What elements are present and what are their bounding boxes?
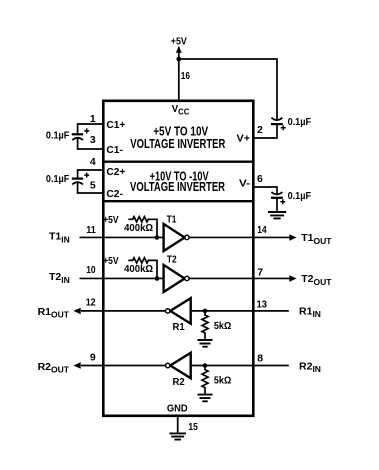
svg-text:VOLTAGE INVERTER: VOLTAGE INVERTER	[130, 180, 225, 194]
svg-text:R1IN: R1IN	[299, 305, 321, 319]
svg-text:R1: R1	[173, 321, 185, 333]
svg-text:T1OUT: T1OUT	[301, 232, 332, 246]
svg-text:C1-: C1-	[106, 144, 123, 156]
svg-text:14: 14	[257, 224, 267, 236]
svg-text:0.1µF: 0.1µF	[288, 191, 311, 202]
svg-text:R2IN: R2IN	[299, 360, 321, 374]
svg-text:15: 15	[188, 421, 198, 433]
svg-text:6: 6	[257, 173, 263, 185]
svg-text:0.1µF: 0.1µF	[288, 117, 311, 128]
svg-text:0.1µF: 0.1µF	[46, 130, 69, 141]
svg-text:GND: GND	[167, 403, 188, 415]
svg-text:C2-: C2-	[106, 188, 123, 200]
svg-text:T2OUT: T2OUT	[301, 273, 332, 287]
svg-text:T2: T2	[167, 253, 177, 265]
svg-text:T1: T1	[167, 213, 177, 225]
svg-text:1: 1	[90, 113, 96, 125]
svg-text:T1IN: T1IN	[49, 231, 70, 245]
svg-text:V-: V-	[239, 178, 251, 190]
svg-text:16: 16	[181, 70, 190, 82]
svg-text:2: 2	[257, 124, 263, 136]
svg-text:0.1µF: 0.1µF	[46, 174, 69, 185]
svg-text:5kΩ: 5kΩ	[214, 375, 231, 386]
svg-text:VCC: VCC	[172, 103, 190, 117]
svg-text:+5V: +5V	[103, 255, 118, 267]
svg-text:T2IN: T2IN	[49, 271, 70, 285]
svg-text:+5V: +5V	[103, 214, 118, 226]
svg-text:4: 4	[90, 156, 96, 168]
svg-text:400kΩ: 400kΩ	[124, 264, 153, 275]
svg-text:10: 10	[86, 264, 96, 276]
svg-text:12: 12	[86, 297, 96, 309]
svg-text:8: 8	[257, 352, 263, 364]
svg-text:V+: V+	[237, 133, 251, 145]
svg-text:7: 7	[257, 267, 263, 279]
svg-text:11: 11	[86, 224, 96, 236]
svg-text:R2OUT: R2OUT	[38, 361, 70, 375]
svg-text:3: 3	[90, 134, 96, 146]
svg-text:5: 5	[90, 179, 96, 191]
svg-text:400kΩ: 400kΩ	[124, 223, 153, 234]
svg-text:C1+: C1+	[106, 119, 125, 131]
svg-text:VOLTAGE INVERTER: VOLTAGE INVERTER	[130, 137, 225, 151]
svg-text:5kΩ: 5kΩ	[214, 321, 231, 332]
svg-text:R2: R2	[173, 376, 185, 388]
svg-text:C2+: C2+	[106, 166, 125, 178]
svg-text:9: 9	[90, 352, 96, 364]
svg-text:13: 13	[257, 299, 268, 311]
svg-text:R1OUT: R1OUT	[38, 306, 70, 320]
svg-text:+5V: +5V	[171, 36, 187, 48]
